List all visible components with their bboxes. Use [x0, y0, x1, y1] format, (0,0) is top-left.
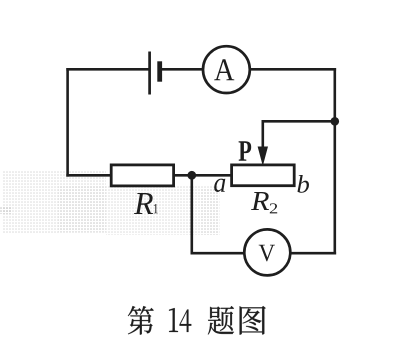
wiper arrowhead P — [258, 147, 268, 167]
wire bottom-right horizontal to voltmeter — [290, 252, 336, 255]
wire ammeter to top-right corner — [250, 68, 336, 71]
node junction dot middle — [187, 171, 196, 180]
battery cell long plate — [148, 52, 151, 95]
terminal label a — [214, 179, 225, 192]
ammeter A circle — [203, 46, 250, 93]
caption char 图 — [240, 306, 266, 335]
wire left-middle horizontal to R1 — [66, 174, 112, 177]
label P wiper — [239, 141, 252, 160]
wire top-left horizontal — [66, 68, 150, 71]
battery cell short thick plate — [157, 61, 162, 81]
watermark texture left dense patch — [58, 186, 106, 232]
rheostat R2 box — [232, 165, 295, 186]
node junction dot right — [331, 117, 340, 126]
terminal label b — [297, 175, 309, 193]
label R2 subscript 2 — [270, 203, 277, 213]
wire bottom-left horizontal to voltmeter — [191, 252, 246, 255]
label R1 letter R — [134, 193, 153, 214]
wire battery to ammeter — [160, 68, 204, 71]
wire right vertical — [333, 68, 336, 255]
resistor R1 box — [111, 165, 173, 186]
watermark texture left block — [2, 171, 106, 233]
label R2 letter R — [251, 192, 269, 210]
caption char 题 — [208, 306, 234, 335]
wire left vertical — [66, 68, 69, 177]
wire wiper vertical drop — [261, 120, 264, 151]
caption char 第 — [128, 306, 154, 335]
caption digit 1 — [169, 308, 178, 332]
watermark texture mid block — [106, 186, 218, 235]
wire middle junction down vertical — [191, 175, 194, 254]
caption digit 4 — [180, 309, 192, 331]
watermark texture right faint block — [200, 188, 220, 235]
wire R1 to R2 middle horizontal — [174, 174, 232, 177]
wire junction to wiper corner — [262, 120, 335, 123]
label R1 subscript 1 — [154, 204, 158, 213]
voltmeter V circle — [244, 229, 290, 275]
ammeter letter A — [214, 59, 234, 80]
watermark mark left edge — [0, 206, 11, 214]
voltmeter letter V — [259, 245, 275, 262]
